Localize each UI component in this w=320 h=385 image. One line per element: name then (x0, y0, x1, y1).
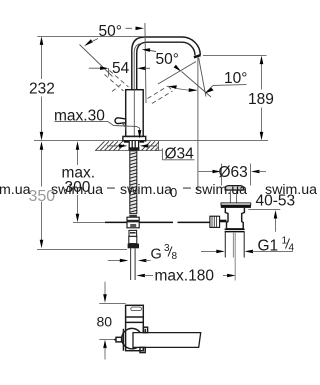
svg-text:232: 232 (29, 81, 55, 98)
svg-text:swim.ua: swim.ua (51, 182, 103, 198)
svg-text:swim.ua: swim.ua (0, 182, 31, 198)
svg-text:–: – (183, 180, 191, 196)
svg-text:swim.ua: swim.ua (195, 182, 247, 198)
svg-text:54: 54 (112, 60, 130, 77)
svg-text:Ø34: Ø34 (165, 145, 195, 162)
svg-text:G: G (151, 246, 162, 262)
svg-text:4: 4 (289, 242, 295, 253)
svg-text:–: – (107, 180, 115, 196)
svg-text:0: 0 (170, 185, 177, 200)
svg-text:8: 8 (172, 251, 178, 262)
svg-text:Ø63: Ø63 (219, 164, 248, 181)
svg-text:189: 189 (248, 91, 274, 108)
svg-text:swim.ua: swim.ua (265, 182, 317, 198)
svg-text:swim.ua: swim.ua (120, 182, 172, 198)
svg-text:3: 3 (164, 243, 170, 254)
svg-text:50°: 50° (99, 23, 122, 40)
svg-text:max.180: max.180 (155, 268, 215, 285)
svg-text:80: 80 (97, 313, 113, 329)
svg-text:G1: G1 (258, 237, 279, 254)
